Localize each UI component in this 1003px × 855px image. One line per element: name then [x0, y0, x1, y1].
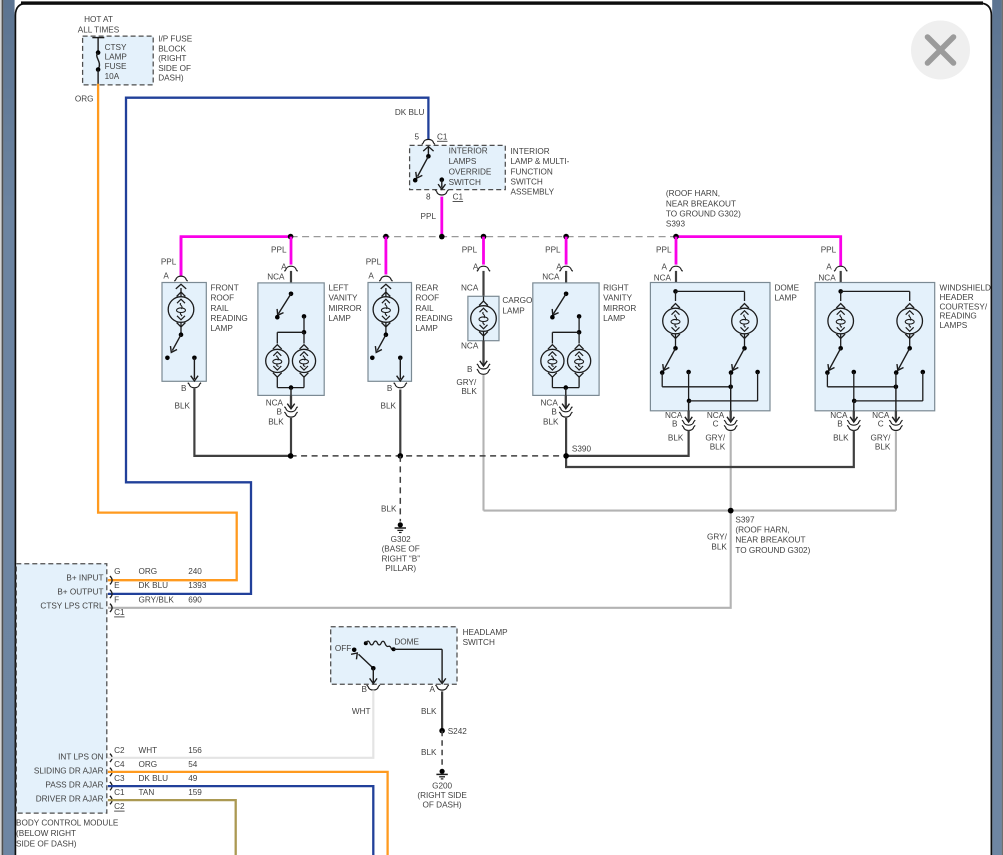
svg-text:MIRROR: MIRROR — [603, 304, 636, 313]
wire PPL riser to rear lamp — [384, 237, 387, 275]
lamp: REAR ROOF RAIL READING LAMP — [368, 283, 412, 382]
wire GRY/BLK windshield pin C to S397 bus — [895, 431, 897, 510]
svg-text:HEADLAMP: HEADLAMP — [463, 628, 509, 637]
wire PPL riser to cargo lamp — [482, 237, 485, 265]
svg-text:GRY/BLK: GRY/BLK — [139, 595, 175, 604]
lamp: LEFT VANITY MIRROR LAMP — [258, 283, 324, 396]
svg-text:LAMP: LAMP — [211, 324, 234, 333]
svg-text:F: F — [114, 595, 119, 604]
wire BLK dome pin B to S390 — [566, 431, 689, 456]
svg-text:A: A — [826, 263, 832, 272]
bulb left of right vanity — [541, 345, 564, 377]
svg-text:B: B — [387, 384, 393, 393]
svg-text:OVERRIDE: OVERRIDE — [449, 167, 492, 176]
svg-text:DK BLU: DK BLU — [139, 774, 169, 783]
ground G200 — [440, 769, 445, 774]
svg-text:LAMPS: LAMPS — [940, 321, 968, 330]
svg-text:RIGHT “B”: RIGHT “B” — [381, 554, 420, 563]
svg-text:BLK: BLK — [461, 387, 477, 396]
svg-text:54: 54 — [188, 760, 198, 769]
svg-text:A: A — [163, 272, 169, 281]
svg-text:SWITCH: SWITCH — [511, 178, 543, 187]
svg-text:C: C — [713, 419, 719, 428]
pin B connector — [830, 411, 860, 431]
BCM pin C3 DK BLU 49 — [45, 774, 197, 790]
svg-text:ORG: ORG — [139, 760, 158, 769]
pin C connector — [707, 411, 737, 431]
svg-text:49: 49 — [188, 774, 198, 783]
wire into left vanity lamp — [290, 271, 292, 294]
svg-text:DRIVER DR AJAR: DRIVER DR AJAR — [36, 795, 104, 804]
svg-text:A: A — [556, 262, 562, 271]
svg-text:A: A — [281, 262, 287, 271]
svg-text:C4: C4 — [114, 760, 125, 769]
svg-text:PPL: PPL — [161, 257, 177, 266]
svg-text:B: B — [551, 408, 557, 417]
svg-text:VANITY: VANITY — [329, 294, 359, 303]
bulb right — [897, 304, 923, 339]
bulb left — [828, 304, 854, 339]
svg-text:ALL TIMES: ALL TIMES — [78, 26, 120, 35]
wire BLK right vanity to S390 — [565, 418, 567, 456]
lamp: CARGO LAMP — [468, 296, 499, 340]
svg-text:REAR: REAR — [416, 284, 439, 293]
wire BLK dashed ground bus — [291, 455, 566, 457]
svg-text:PPL: PPL — [462, 246, 478, 255]
svg-text:WINDSHIELD: WINDSHIELD — [940, 284, 991, 293]
svg-text:NCA: NCA — [461, 284, 479, 293]
svg-text:TAN: TAN — [139, 788, 155, 797]
svg-text:MIRROR: MIRROR — [329, 304, 362, 313]
svg-text:(ROOF HARN,: (ROOF HARN, — [735, 526, 789, 535]
switch U: interior lamps override switch — [410, 145, 506, 189]
wire GRY/BLK dome pin C to S397 — [730, 431, 732, 510]
wire ORG fuse to BCM G — [98, 85, 237, 580]
svg-text:BLK: BLK — [668, 433, 684, 442]
svg-text:SWITCH: SWITCH — [449, 178, 481, 187]
svg-text:BLK: BLK — [421, 748, 437, 757]
bulb right of right vanity — [568, 345, 591, 377]
svg-text:HEADER: HEADER — [940, 293, 974, 302]
lamp: FRONT ROOF RAIL READING LAMP — [162, 283, 206, 382]
node junction dots on PPL bus — [288, 234, 294, 240]
svg-text:HOT AT: HOT AT — [84, 15, 113, 24]
svg-text:BLK: BLK — [421, 707, 437, 716]
svg-text:ORG: ORG — [139, 567, 158, 576]
wire PPL riser to dome lamp — [675, 237, 678, 265]
bulb right — [732, 304, 758, 339]
svg-text:PPL: PPL — [821, 246, 837, 255]
svg-text:B: B — [181, 384, 187, 393]
svg-text:A: A — [430, 685, 436, 694]
wire GRY/BLK cargo lamp to S397 — [482, 375, 484, 511]
wire DK BLU BCM E to interior lamps override switch — [109, 98, 428, 594]
svg-text:WHT: WHT — [352, 707, 371, 716]
svg-text:C2: C2 — [114, 802, 125, 811]
pin 5 C1 of override switch — [414, 132, 447, 144]
svg-text:C2: C2 — [114, 746, 125, 755]
pin B connector of left vanity — [266, 395, 298, 417]
svg-text:GRY/: GRY/ — [456, 378, 477, 387]
lamp: DOME LAMP — [650, 283, 770, 411]
BCM pin E DK BLU 1393 — [57, 581, 207, 598]
svg-text:NEAR BREAKOUT: NEAR BREAKOUT — [735, 536, 805, 545]
svg-text:LAMP: LAMP — [775, 294, 798, 303]
svg-text:B+ OUTPUT: B+ OUTPUT — [57, 587, 103, 596]
node splice S397 — [728, 508, 734, 514]
svg-text:(RIGHT SIDE: (RIGHT SIDE — [417, 791, 467, 800]
svg-text:DK BLU: DK BLU — [395, 108, 425, 117]
wire PPL solid left segment — [181, 237, 291, 275]
svg-text:PPL: PPL — [366, 257, 382, 266]
svg-text:B: B — [362, 685, 368, 694]
svg-text:ORG: ORG — [75, 95, 94, 104]
svg-text:C1: C1 — [114, 608, 125, 617]
wire PPL riser to front roof rail reading lamp — [180, 237, 183, 275]
svg-text:10A: 10A — [105, 72, 120, 81]
svg-text:BLK: BLK — [543, 417, 559, 426]
svg-text:S393: S393 — [666, 220, 686, 229]
svg-text:B: B — [837, 419, 843, 428]
BCM pin C1 TAN 159 — [36, 788, 203, 804]
svg-text:S242: S242 — [448, 727, 468, 736]
svg-text:READING: READING — [416, 314, 453, 323]
fuse CTSY LAMP FUSE 10A — [92, 38, 104, 85]
svg-text:LAMP: LAMP — [603, 314, 626, 323]
svg-text:C1: C1 — [437, 132, 448, 141]
left window edge strips — [0, 0, 2, 855]
module: BODY CONTROL MODULE — [16, 564, 107, 813]
svg-text:G302: G302 — [391, 535, 411, 544]
svg-text:SLIDING DR AJAR: SLIDING DR AJAR — [34, 766, 104, 775]
svg-text:CTSY LPS CTRL: CTSY LPS CTRL — [40, 601, 104, 610]
svg-text:NCA: NCA — [266, 398, 284, 407]
wire BLK dashed to G200 — [441, 731, 443, 768]
svg-text:INTERIOR: INTERIOR — [449, 147, 488, 156]
svg-text:OFF: OFF — [335, 644, 351, 653]
svg-text:LAMP: LAMP — [329, 314, 352, 323]
svg-text:BLK: BLK — [711, 543, 727, 552]
bulb right of left vanity — [292, 345, 315, 377]
I/P fuse block box — [83, 36, 154, 85]
wire ORG BCM C4 — [109, 772, 388, 855]
svg-text:G200: G200 — [432, 781, 452, 790]
bulb left — [663, 304, 689, 339]
node splice S390 — [288, 453, 294, 459]
svg-text:CARGO: CARGO — [502, 296, 532, 305]
svg-text:PPL: PPL — [271, 246, 287, 255]
svg-text:BLK: BLK — [833, 433, 849, 442]
ground G302 — [398, 522, 403, 527]
svg-text:(RIGHT: (RIGHT — [158, 54, 186, 63]
svg-text:B: B — [277, 408, 283, 417]
svg-text:159: 159 — [188, 788, 202, 797]
svg-text:NCA: NCA — [654, 273, 672, 282]
svg-text:BLK: BLK — [175, 401, 191, 410]
svg-text:C3: C3 — [114, 774, 125, 783]
BCM pin C4 ORG 54 — [34, 760, 198, 776]
svg-text:CTSY: CTSY — [105, 43, 127, 52]
switch: HEADLAMP SWITCH — [331, 627, 457, 685]
svg-text:5: 5 — [414, 132, 419, 141]
wire DK BLU BCM C3 — [109, 786, 373, 855]
wire PPL from override switch to bus — [440, 197, 443, 237]
right window edge strip — [992, 0, 1002, 855]
pin B connector of right vanity — [541, 395, 573, 417]
svg-text:DOME: DOME — [394, 638, 419, 647]
BCM pin G ORG 240 — [66, 567, 202, 584]
pin B connector of cargo lamp — [461, 341, 490, 375]
pin 8 C1 of override switch — [426, 190, 464, 202]
svg-text:BODY CONTROL MODULE: BODY CONTROL MODULE — [16, 819, 119, 828]
svg-text:OF DASH): OF DASH) — [423, 801, 462, 810]
wire BLK left vanity to ground bus — [290, 418, 292, 456]
wire into right vanity lamp — [565, 271, 567, 294]
wire BLK headlamp switch to S242 — [441, 691, 443, 730]
wire PPL riser to right vanity lamp — [565, 237, 568, 265]
svg-text:NCA: NCA — [542, 272, 560, 281]
svg-text:B: B — [672, 419, 678, 428]
svg-text:PILLAR): PILLAR) — [385, 564, 416, 573]
svg-text:INTERIOR: INTERIOR — [511, 147, 550, 156]
bulb left of left vanity — [266, 345, 289, 377]
node splice S242 — [439, 728, 445, 734]
svg-text:LAMP: LAMP — [502, 306, 525, 315]
svg-text:RAIL: RAIL — [211, 304, 230, 313]
svg-text:FRONT: FRONT — [211, 284, 239, 293]
svg-text:BLK: BLK — [381, 401, 397, 410]
svg-text:A: A — [662, 263, 668, 272]
svg-text:READING: READING — [211, 314, 248, 323]
pin B connector — [665, 411, 695, 431]
svg-text:GRY/: GRY/ — [705, 434, 726, 443]
svg-text:BLOCK: BLOCK — [158, 45, 186, 54]
wire BLK front lamp to ground bus — [194, 390, 290, 456]
svg-text:690: 690 — [188, 595, 202, 604]
svg-text:DASH): DASH) — [158, 74, 184, 83]
svg-text:INT LPS ON: INT LPS ON — [58, 752, 103, 761]
svg-text:READING: READING — [940, 312, 977, 321]
svg-text:BLK: BLK — [875, 442, 891, 451]
svg-text:LAMPS: LAMPS — [449, 157, 477, 166]
wire WHT headlamp switch to BCM C2 — [109, 691, 373, 757]
svg-text:DOME: DOME — [775, 284, 800, 293]
svg-text:TO GROUND G302): TO GROUND G302) — [735, 546, 810, 555]
svg-text:SIDE OF DASH): SIDE OF DASH) — [16, 840, 77, 849]
svg-text:ROOF: ROOF — [211, 294, 235, 303]
svg-text:B: B — [467, 365, 473, 374]
svg-text:PPL: PPL — [545, 246, 561, 255]
BCM pin F GRY/BLK 690 — [40, 595, 202, 612]
svg-text:S390: S390 — [572, 444, 592, 453]
svg-text:S397: S397 — [735, 515, 755, 524]
svg-text:BLK: BLK — [268, 417, 284, 426]
pin C connector — [872, 411, 902, 431]
svg-text:I/P FUSE: I/P FUSE — [158, 35, 193, 44]
svg-text:DK BLU: DK BLU — [139, 581, 169, 590]
svg-text:PASS DR AJAR: PASS DR AJAR — [45, 781, 103, 790]
svg-text:SIDE OF: SIDE OF — [158, 64, 191, 73]
svg-text:TO GROUND G302): TO GROUND G302) — [666, 209, 741, 218]
wire PPL riser to left vanity lamp — [290, 237, 293, 265]
svg-text:FUSE: FUSE — [105, 62, 127, 71]
svg-text:B+ INPUT: B+ INPUT — [66, 574, 103, 583]
svg-text:C1: C1 — [453, 193, 464, 202]
wire PPL dashed bus — [291, 236, 676, 238]
svg-text:BLK: BLK — [381, 505, 397, 514]
svg-text:ASSEMBLY: ASSEMBLY — [511, 188, 555, 197]
svg-text:BLK: BLK — [710, 442, 726, 451]
wire GRY/BLK S397 bus — [484, 510, 896, 512]
svg-text:(BASE OF: (BASE OF — [382, 545, 420, 554]
svg-text:156: 156 — [188, 746, 202, 755]
svg-text:240: 240 — [188, 567, 202, 576]
lamp: RIGHT VANITY MIRROR LAMP — [533, 283, 599, 396]
svg-text:LAMP: LAMP — [105, 53, 128, 62]
svg-text:PPL: PPL — [421, 212, 437, 221]
svg-text:VANITY: VANITY — [603, 294, 633, 303]
svg-text:SWITCH: SWITCH — [463, 638, 495, 647]
wire GRY/BLK S397 down to BCM pin F — [109, 511, 731, 608]
wire BLK rear lamp to ground bus — [399, 390, 401, 456]
svg-text:NCA: NCA — [818, 273, 836, 282]
svg-text:(BELOW RIGHT: (BELOW RIGHT — [16, 829, 76, 838]
svg-text:GRY/: GRY/ — [871, 434, 892, 443]
svg-text:ROOF: ROOF — [416, 294, 440, 303]
close button — [911, 21, 970, 80]
svg-text:GRY/: GRY/ — [707, 533, 728, 542]
wire into dome lamp — [675, 271, 677, 292]
svg-text:(ROOF HARN,: (ROOF HARN, — [666, 189, 720, 198]
lamp: WINDSHIELD HEADER COURTESY/READING LAMPS — [815, 283, 935, 411]
svg-text:C: C — [878, 419, 884, 428]
svg-text:FUNCTION: FUNCTION — [511, 167, 553, 176]
svg-text:LEFT: LEFT — [329, 284, 349, 293]
svg-text:RAIL: RAIL — [416, 304, 435, 313]
svg-text:NCA: NCA — [461, 342, 479, 351]
svg-text:A: A — [368, 272, 374, 281]
svg-text:NCA: NCA — [267, 272, 285, 281]
wire BLK windshield pin B to S390 — [566, 431, 854, 467]
svg-text:RIGHT: RIGHT — [603, 284, 628, 293]
svg-text:LAMP: LAMP — [416, 324, 439, 333]
svg-text:PPL: PPL — [656, 246, 672, 255]
svg-text:NCA: NCA — [541, 398, 559, 407]
BCM pin C2 WHT 156 — [58, 746, 202, 762]
svg-text:COURTESY/: COURTESY/ — [940, 302, 988, 311]
wire into cargo lamp — [482, 271, 484, 299]
wire BLK dashed to ground G302 — [399, 456, 401, 522]
wire PPL solid right segment to windshield lamps — [676, 237, 841, 265]
svg-text:E: E — [114, 581, 120, 590]
svg-text:LAMP & MULTI-: LAMP & MULTI- — [511, 157, 570, 166]
svg-text:G: G — [114, 567, 120, 576]
svg-text:1393: 1393 — [188, 581, 207, 590]
svg-text:WHT: WHT — [139, 746, 158, 755]
svg-text:NEAR BREAKOUT: NEAR BREAKOUT — [666, 199, 736, 208]
svg-text:C1: C1 — [114, 788, 125, 797]
wire TAN BCM C1 — [109, 800, 236, 855]
svg-text:8: 8 — [426, 193, 431, 202]
